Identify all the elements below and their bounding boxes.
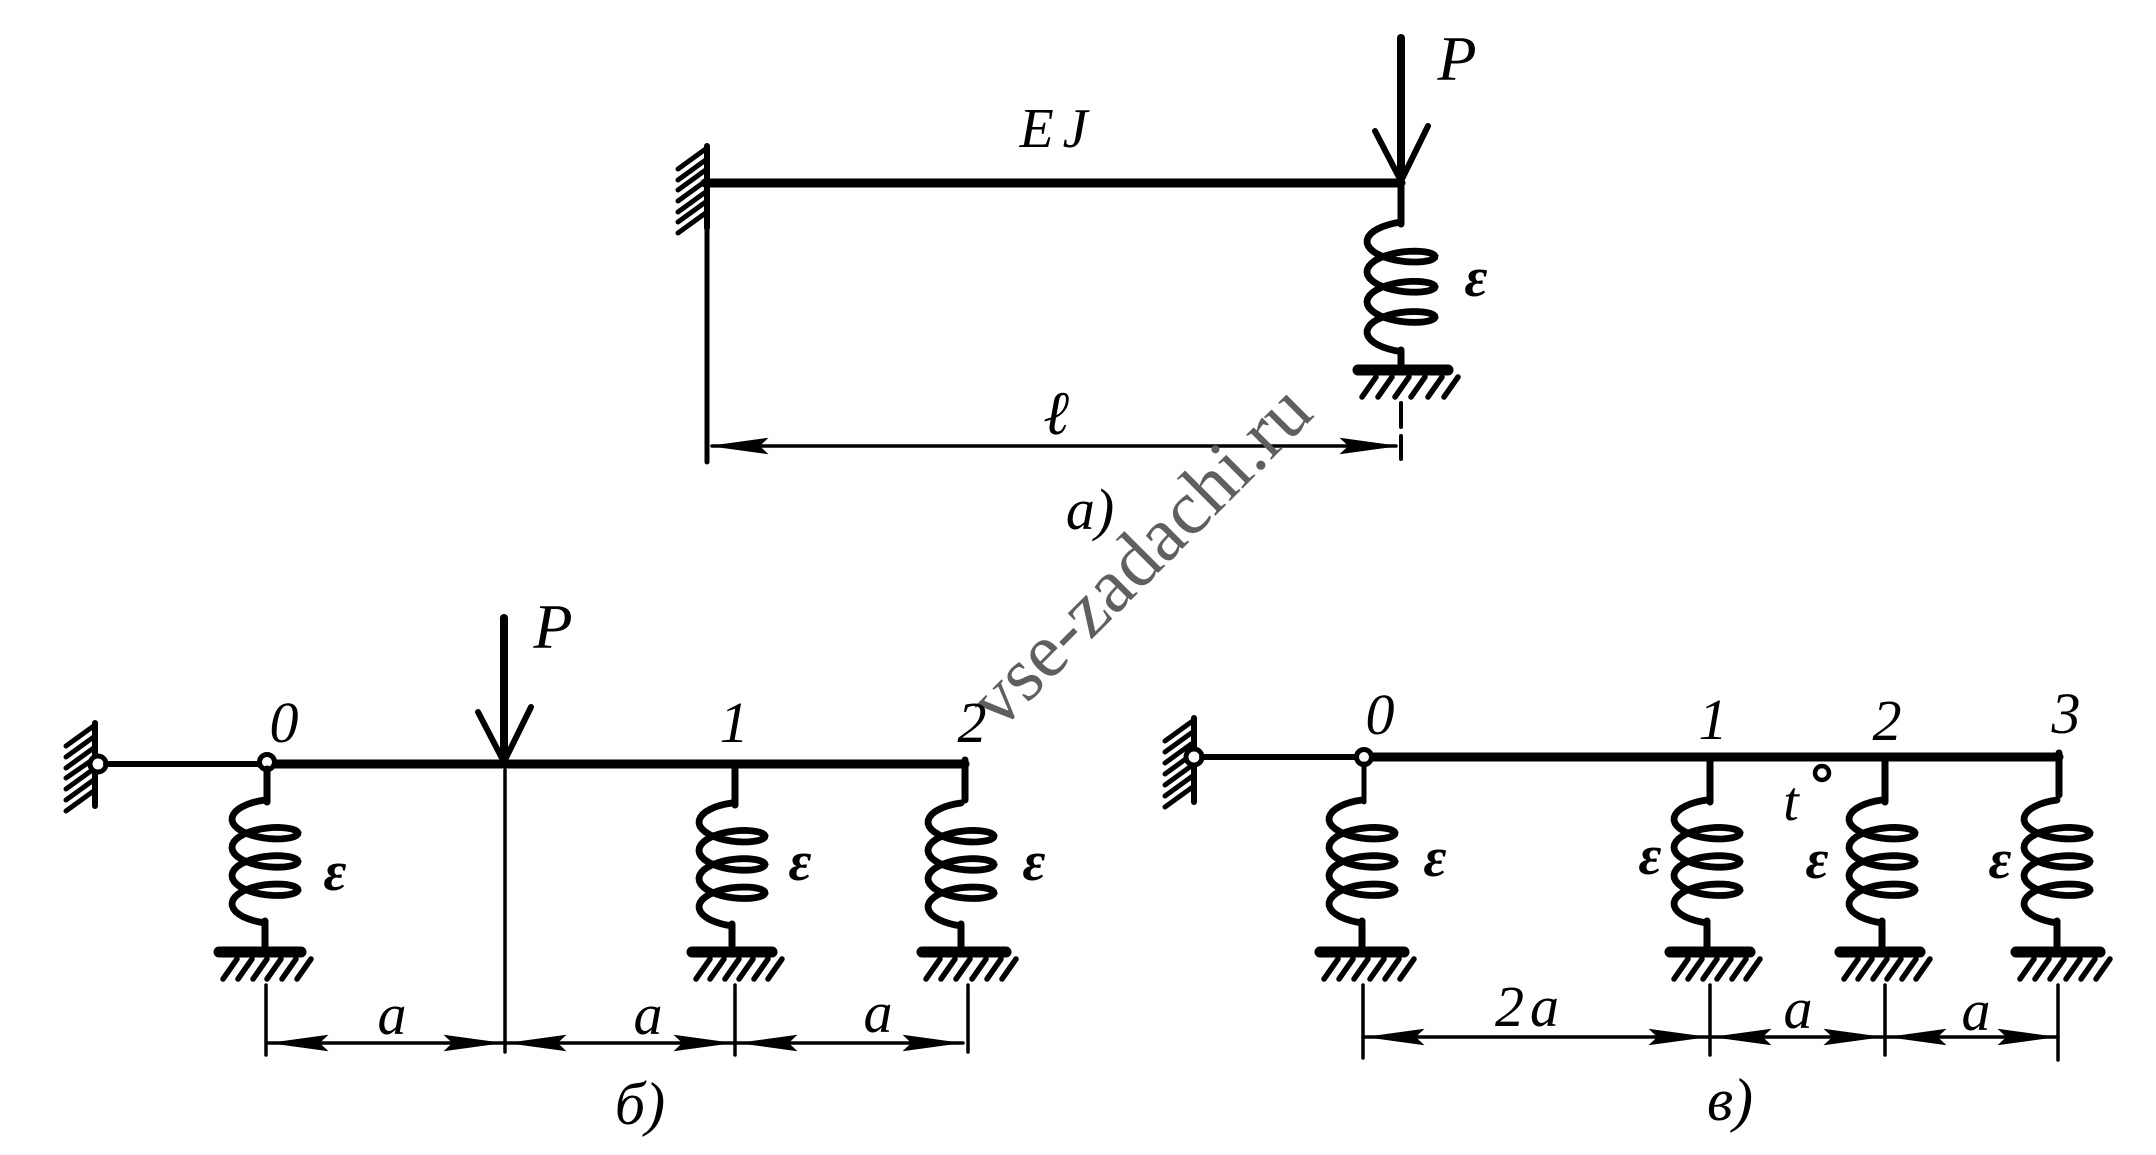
node 3 (fig в) [2051, 681, 2081, 746]
extension line node 0 (fig б) [264, 985, 268, 1055]
extension line node 0 (fig в) [1361, 985, 1365, 1058]
svg-text:ε: ε [1424, 827, 1447, 889]
spring ε (fig a) [1367, 187, 1435, 364]
svg-text:3: 3 [2051, 681, 2081, 746]
svg-text:ℓ: ℓ [1043, 380, 1069, 448]
node 1 (fig б) [720, 690, 749, 805]
extension line node 3 (fig в) [2056, 985, 2060, 1060]
svg-text:2: 2 [958, 690, 987, 755]
label a span1 (fig б) [378, 982, 407, 1047]
spring ε at node 3 (fig в) [2024, 800, 2090, 948]
svg-text:ε: ε [1806, 829, 1829, 891]
extension line below P (fig б) [503, 770, 507, 1052]
label ε at node 1 (fig в) [1639, 825, 1662, 887]
svg-text:ε: ε [1639, 825, 1662, 887]
svg-text:vse-zadachi.ru: vse-zadachi.ru [951, 367, 1328, 744]
load P arrow (fig a) [1375, 38, 1428, 181]
label ε at node 2 (fig в) [1806, 829, 1829, 891]
ground under node 1 spring (fig б) [692, 952, 782, 979]
beam (fig б) [106, 760, 965, 800]
node 2 (fig б) [958, 690, 987, 755]
wall support (fig б) [66, 723, 95, 811]
dimension line l (fig a) [712, 439, 1396, 454]
label ε at node 3 (fig в) [1989, 829, 2012, 891]
node 0 (fig б) [260, 690, 299, 770]
beam EJ (fig a) [705, 179, 1401, 188]
ground node 2 (fig в) [1840, 952, 1930, 979]
extension line below ground (fig a) [1399, 403, 1403, 459]
svg-text:в): в) [1707, 1067, 1753, 1133]
dimension line a-a-a (fig б) [267, 1036, 963, 1051]
label t° (fig в) [1783, 766, 1829, 833]
label EJ [1018, 98, 1096, 160]
svg-text:ε: ε [1989, 829, 2012, 891]
svg-text:ε: ε [789, 831, 812, 893]
label ε at node 0 (fig б) [324, 841, 347, 903]
svg-text:2a: 2a [1495, 974, 1565, 1039]
spring ε at node 0 (fig б) [232, 769, 298, 948]
beam (fig в) [1202, 753, 2059, 795]
svg-text:ε: ε [1465, 247, 1488, 309]
watermark vse-zadachi.ru [951, 367, 1328, 744]
svg-text:ε: ε [1023, 831, 1046, 893]
node 2 (fig в) [1873, 688, 1902, 802]
svg-text:б): б) [615, 1071, 665, 1137]
spring ε at node 1 (fig б) [699, 803, 765, 948]
caption а) [1066, 477, 1114, 542]
caption б) [615, 1071, 665, 1137]
svg-text:a: a [1784, 976, 1813, 1041]
extension line node 2 (fig б) [966, 985, 970, 1052]
svg-text:1: 1 [720, 690, 749, 755]
label a span3 (fig б) [864, 980, 893, 1045]
label a span3 (fig в) [1962, 978, 1991, 1043]
svg-text:P: P [1436, 23, 1476, 94]
label ε at node 1 (fig б) [789, 831, 812, 893]
ground under node 0 spring (fig б) [219, 952, 311, 979]
spring ε at node 2 (fig в) [1849, 800, 1915, 948]
label ε at node 0 (fig в) [1424, 827, 1447, 889]
dimension line 2a-a-a (fig в) [1363, 1030, 2058, 1045]
svg-text:P: P [532, 591, 572, 662]
extension line node 2 (fig в) [1883, 985, 1887, 1055]
label 2a (fig в) [1495, 974, 1565, 1039]
caption в) [1707, 1067, 1753, 1133]
spring ε at node 1 (fig в) [1674, 800, 1740, 948]
pin circle (fig в) [1186, 749, 1202, 765]
wall support (fig в) [1165, 718, 1194, 807]
label ε (fig a) [1465, 247, 1488, 309]
label l [1043, 380, 1069, 448]
svg-text:a: a [378, 982, 407, 1047]
svg-text:ε: ε [324, 841, 347, 903]
ground under node 2 spring (fig б) [922, 952, 1016, 979]
label P (fig a) [1436, 23, 1476, 94]
svg-text:a: a [634, 982, 663, 1047]
node 1 (fig в) [1699, 687, 1728, 802]
label ε at node 2 (fig б) [1023, 831, 1046, 893]
ground node 0 (fig в) [1320, 952, 1414, 979]
wall support (fig a) [678, 146, 707, 462]
svg-text:1: 1 [1699, 687, 1728, 752]
extension line node 1 (fig в) [1708, 985, 1712, 1055]
label a span2 (fig в) [1784, 976, 1813, 1041]
ground node 3 (fig в) [2016, 952, 2110, 979]
svg-text:a: a [864, 980, 893, 1045]
extension line node 1 (fig б) [733, 985, 737, 1055]
svg-text:t: t [1783, 771, 1800, 833]
svg-text:EJ: EJ [1018, 98, 1096, 160]
pin circle (fig б) [90, 756, 106, 772]
svg-text:a: a [1962, 978, 1991, 1043]
spring ε at node 2 (fig б) [928, 803, 994, 948]
load P arrow (fig б) [478, 618, 531, 762]
node 0 (fig в) [1357, 682, 1395, 765]
label P (fig б) [532, 591, 572, 662]
ground under spring (fig a) [1358, 370, 1458, 397]
label a span2 (fig б) [634, 982, 663, 1047]
svg-text:2: 2 [1873, 688, 1902, 753]
spring ε at node 0 (fig в) [1329, 764, 1395, 948]
svg-text:0: 0 [1366, 682, 1395, 747]
svg-text:0: 0 [270, 690, 299, 755]
ground node 1 (fig в) [1670, 952, 1760, 979]
